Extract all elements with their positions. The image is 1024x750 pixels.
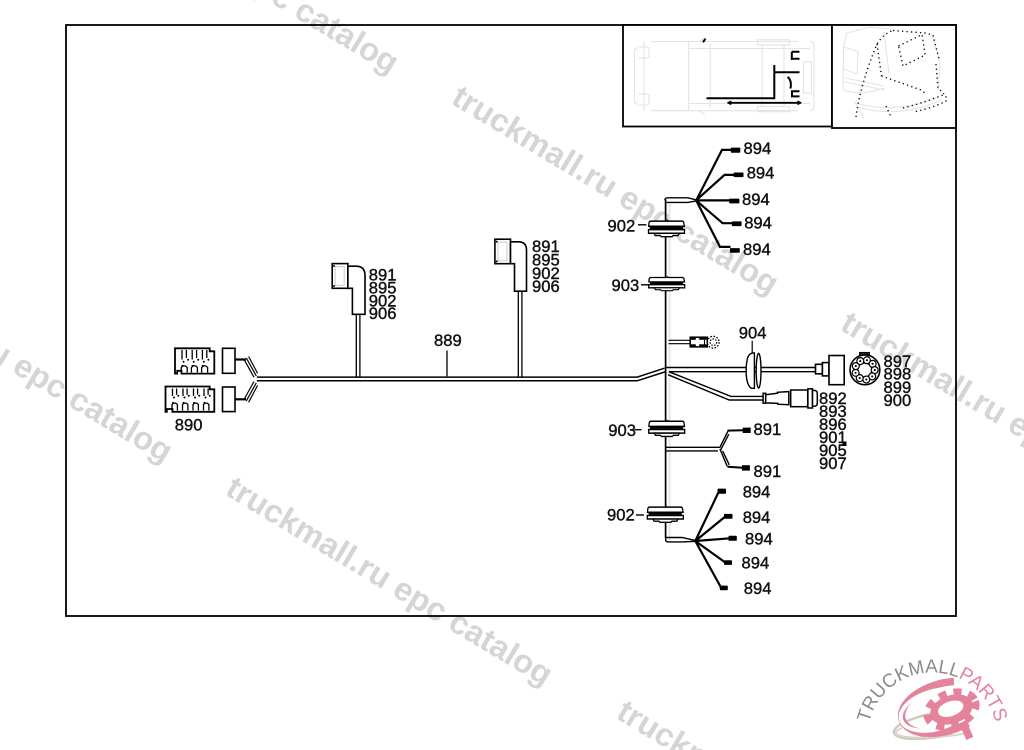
inset box 2 (cab rear view) <box>832 25 956 128</box>
svg-text:894: 894 <box>743 483 771 502</box>
angled connector 1 <box>332 264 365 377</box>
round connector face 897-900 <box>850 353 880 385</box>
wire main run <box>707 65 775 98</box>
grommet 902 upper <box>649 220 685 237</box>
logo gray swirl ellipses <box>894 711 970 739</box>
gray echo strand of vertical harness <box>669 203 671 540</box>
svg-text:894: 894 <box>745 529 773 548</box>
grommet 903 lower <box>649 420 685 437</box>
C bracket <box>792 91 800 96</box>
svg-text:894: 894 <box>742 190 770 209</box>
bullet connector wire <box>669 340 691 343</box>
boot connector 892 <box>763 389 817 408</box>
svg-text:894: 894 <box>742 554 770 573</box>
svg-text:truckmall.ru epc catalog: truckmall.ru epc catalog <box>0 246 179 469</box>
inset 2 dotted harness routes <box>856 31 947 118</box>
svg-text:903: 903 <box>608 421 636 440</box>
upper fan terminal tabs 894 <box>729 148 743 253</box>
logo gear <box>923 686 981 733</box>
stub plug upper <box>223 348 236 373</box>
inset 2 faint cab outline <box>843 27 941 119</box>
svg-text:894: 894 <box>743 240 771 259</box>
bullet connector <box>690 336 719 348</box>
svg-text:894: 894 <box>744 579 772 598</box>
grommet 904 <box>746 353 761 388</box>
lower fan terminal tabs 894 <box>718 489 737 591</box>
bottom corner channel to lower fan point <box>666 538 696 542</box>
small arc <box>788 77 791 89</box>
svg-text:900: 900 <box>884 391 912 410</box>
svg-text:906: 906 <box>532 277 560 296</box>
grommet 902 lower <box>647 506 683 523</box>
upper fan wires <box>696 150 734 247</box>
logo gear tail <box>961 724 974 740</box>
lead from lower stub <box>235 398 246 400</box>
lower rail with chevrons <box>728 101 732 104</box>
grommet 903 upper <box>649 276 685 290</box>
watermark tile E <box>611 693 950 750</box>
svg-text:891: 891 <box>754 420 782 439</box>
main frame border <box>66 25 956 616</box>
watermark tile B <box>446 78 785 301</box>
logo <box>854 656 1011 739</box>
logo arc text <box>869 673 996 724</box>
svg-text:907: 907 <box>819 454 847 473</box>
svg-text:889: 889 <box>434 331 462 350</box>
twisted pair hatch lower <box>244 382 258 403</box>
svg-text:894: 894 <box>743 508 771 527</box>
lead to upper 891 <box>728 429 744 431</box>
wire branch to front <box>774 71 799 73</box>
main harness double line <box>257 368 666 381</box>
Y split to 891 leads <box>666 431 729 451</box>
diagonal wire to boot connector <box>668 372 763 400</box>
F bracket <box>792 52 800 60</box>
svg-text:truckmall.ru epc catalog: truckmall.ru epc catalog <box>835 304 1024 527</box>
svg-text:890: 890 <box>175 416 203 435</box>
svg-text:902: 902 <box>608 217 636 236</box>
vertical harness trunk <box>665 200 667 539</box>
svg-text:truckmall.ru epc catalog: truckmall.ru epc catalog <box>66 0 405 80</box>
watermark tile D <box>220 469 559 692</box>
twisted pair hatch upper <box>244 357 258 378</box>
svg-text:891: 891 <box>754 462 782 481</box>
watermark tile A <box>66 0 405 80</box>
watermark tile R <box>835 304 1024 527</box>
svg-text:902: 902 <box>607 506 635 525</box>
lower fan wires <box>695 491 730 588</box>
stub plug lower <box>223 387 236 412</box>
lead to lower 891 <box>728 467 743 468</box>
wire from junction to right connector <box>667 368 816 372</box>
svg-text:894: 894 <box>744 214 772 233</box>
connector block 890 lower <box>166 387 215 412</box>
svg-text:truckmall.ru epc catalog: truckmall.ru epc catalog <box>220 469 559 692</box>
connector block 890 upper <box>175 348 214 373</box>
svg-text:906: 906 <box>369 304 397 323</box>
stray mark <box>843 442 847 447</box>
svg-text:894: 894 <box>747 164 775 183</box>
right plug housing <box>816 356 845 385</box>
watermark tile C <box>0 246 179 469</box>
svg-text:904: 904 <box>739 324 767 343</box>
svg-text:903: 903 <box>612 276 640 295</box>
logo pink swirl <box>902 682 968 734</box>
inset 1 faint truck top-view outline <box>635 38 815 115</box>
lead from upper stub <box>235 358 246 360</box>
inset box 1 (truck top view) <box>623 25 832 127</box>
inset 1 bold harness route lines <box>703 39 801 105</box>
top corner channel to upper fan point <box>665 198 696 203</box>
angled connector 2 <box>495 239 527 377</box>
svg-text:894: 894 <box>744 139 772 158</box>
